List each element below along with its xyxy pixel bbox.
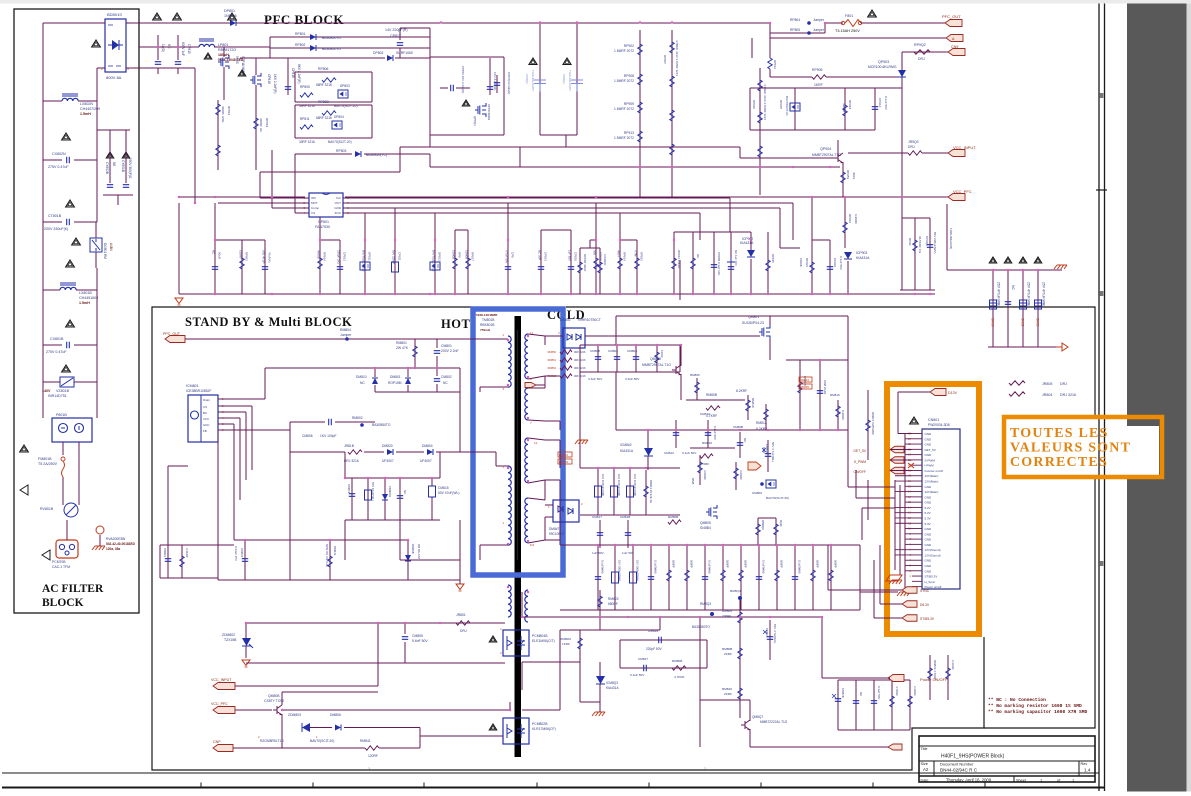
svg-text:120a, 35a: 120a, 35a xyxy=(106,547,120,551)
choke LX802N xyxy=(43,100,62,102)
sheet zone mark A xyxy=(1100,561,1104,566)
svg-text:11: 11 xyxy=(530,331,533,335)
svg-text:OUT: OUT xyxy=(335,201,342,205)
red marked parts top xyxy=(558,452,572,457)
svg-text:CM83: CM83 xyxy=(1036,318,1040,327)
svg-text:RP902: RP902 xyxy=(624,44,634,48)
svg-text:0.1uF 50V: 0.1uF 50V xyxy=(884,96,888,110)
divider chain x672 xyxy=(671,30,673,198)
svg-text:CM810: CM810 xyxy=(700,412,710,416)
svg-text:51M0B: 51M0B xyxy=(452,250,456,259)
svg-text:200RF: 200RF xyxy=(722,614,731,618)
RM806b resistor xyxy=(672,666,686,670)
rm821 resistors 3.6KRF xyxy=(699,455,701,485)
svg-text:GND: GND xyxy=(925,543,933,547)
svg-text:GNC: GNC xyxy=(203,423,209,427)
wire y392 xyxy=(375,391,460,393)
choke LX801B xyxy=(42,222,44,290)
QM807 transistor xyxy=(741,720,750,730)
svg-text:CM81B: CM81B xyxy=(620,515,630,519)
CN801 main rail wires xyxy=(894,480,896,570)
svg-text:CM80: CM80 xyxy=(991,318,995,327)
svg-text:** No marking capacitor 1608 X: ** No marking capacitor 1608 X7R SMD xyxy=(988,709,1087,715)
svg-text:ICM801: ICM801 xyxy=(186,384,199,388)
svg-text:RM860: RM860 xyxy=(548,350,557,354)
svg-text:NC: NC xyxy=(696,254,700,258)
cold comb component x741 xyxy=(740,545,742,610)
wire standby verticals xyxy=(377,623,379,686)
svg-text:NPO.WL 1W C4B: NPO.WL 1W C4B xyxy=(325,544,329,567)
svg-text:QM8Q7: QM8Q7 xyxy=(752,715,763,719)
svg-text:1.5MRF 2072: 1.5MRF 2072 xyxy=(614,49,634,53)
svg-text:BAV70(SCIT-20): BAV70(SCIT-20) xyxy=(766,496,789,500)
CN801 pin bus wires xyxy=(904,434,906,589)
component CP810 on ground comb xyxy=(570,240,572,294)
svg-text:ST/B5.3V: ST/B5.3V xyxy=(920,617,935,621)
svg-text:CM815: CM815 xyxy=(438,486,449,490)
svg-text:RP817: RP817 xyxy=(471,252,475,261)
wire sync from schematic xyxy=(828,589,895,591)
junction dots cold y430 xyxy=(647,429,649,431)
svg-text:0.1uF 50V: 0.1uF 50V xyxy=(839,256,843,270)
RM841 resistor xyxy=(298,747,365,749)
CP906 capacitor xyxy=(929,218,931,290)
svg-text:INR14D751: INR14D751 xyxy=(48,394,67,398)
svg-text:CM8#B: CM8#B xyxy=(841,688,845,698)
svg-text:BA30B50TO: BA30B50TO xyxy=(322,47,341,51)
svg-text:CM808: CM808 xyxy=(590,349,600,353)
bridge rectifier BD801S xyxy=(105,19,126,72)
svg-text:QP8Q4: QP8Q4 xyxy=(473,116,477,126)
svg-text:DM801: DM801 xyxy=(390,375,401,379)
svg-text:8.2KRF: 8.2KRF xyxy=(841,410,845,420)
svg-text:46K0B: 46K0B xyxy=(317,250,321,259)
svg-text:CN9: CN9 xyxy=(951,45,958,49)
svg-text:DM80B: DM80B xyxy=(411,544,415,554)
RP921 resistor branch xyxy=(811,197,813,294)
RP905 resistor xyxy=(770,76,812,78)
cold bottom comb bottom wire xyxy=(560,609,860,611)
svg-text:1.5MRF 2072: 1.5MRF 2072 xyxy=(614,136,634,140)
lower cluster RM8 resistor xyxy=(329,540,331,580)
Y-caps CY802B CY801B xyxy=(97,129,130,131)
svg-text:0.1uF 50V: 0.1uF 50V xyxy=(630,673,645,677)
svg-text:5.3V: 5.3V xyxy=(925,522,931,526)
svg-text:ZOC: ZOC xyxy=(335,211,342,215)
transistor QM80B xyxy=(235,709,272,711)
svg-text:RM802: RM802 xyxy=(352,416,363,420)
arrow marker left xyxy=(20,485,28,495)
svg-text:ELE1M06(CIT): ELE1M06(CIT) xyxy=(532,639,555,643)
svg-text:4.7RNF: 4.7RNF xyxy=(895,686,899,696)
lower cluster diode DM809 xyxy=(407,540,409,580)
svg-text:CY802B: CY802B xyxy=(105,162,109,174)
svg-text:200V 330uF(K): 200V 330uF(K) xyxy=(44,227,68,231)
svg-text:NC: NC xyxy=(1011,285,1015,290)
svg-text:ST/B5.3V: ST/B5.3V xyxy=(925,575,938,579)
svg-text:0.1uF 50V: 0.1uF 50V xyxy=(877,686,881,699)
component RP852 on ground comb xyxy=(241,240,243,294)
svg-text:GND: GND xyxy=(925,532,933,536)
wires cold mid xyxy=(580,467,680,469)
cap CP815b in box xyxy=(451,85,454,91)
sense diode rows RP801 RP802 xyxy=(269,37,271,58)
svg-text:RP907: RP907 xyxy=(663,55,667,64)
svg-text:S_PWM: S_PWM xyxy=(854,460,866,464)
PFC ground bus xyxy=(179,293,935,295)
JR801 resistor xyxy=(440,622,456,624)
svg-text:RM841: RM841 xyxy=(333,546,337,556)
long wire y700 row xyxy=(699,700,701,747)
wires bottom right xyxy=(750,746,770,748)
svg-text:RP801: RP801 xyxy=(295,32,305,36)
svg-text:RM810: RM810 xyxy=(751,398,755,408)
svg-text:JR801: JR801 xyxy=(456,613,466,617)
wire bus cold y430 xyxy=(616,429,848,431)
svg-text:CP818: CP818 xyxy=(267,74,271,84)
warning triangles input caps xyxy=(153,13,162,20)
svg-text:0.33uF 25V: 0.33uF 25V xyxy=(234,546,238,561)
CM808b NC cap xyxy=(739,432,741,458)
svg-text:Sheet: Sheet xyxy=(1016,779,1027,783)
TOUTES LES VALEURS box fill xyxy=(1007,419,1159,475)
wire x290 vertical xyxy=(289,430,291,580)
DM808 DM804 row y452 xyxy=(290,451,345,453)
cluster feed wire xyxy=(946,204,948,270)
svg-text:PFC BLOCK: PFC BLOCK xyxy=(264,12,344,27)
fuse F801 xyxy=(825,22,843,24)
TOUTES gray strip artifact xyxy=(1127,419,1159,426)
warning triangle inlet xyxy=(20,445,29,452)
optocoupler PCM802B xyxy=(503,718,529,744)
svg-text:NC: NC xyxy=(859,692,863,696)
cold comb component x777 xyxy=(776,545,778,610)
svg-text:RP816: RP816 xyxy=(323,252,327,261)
svg-text:NC: NC xyxy=(403,490,407,494)
component DP811 on ground comb xyxy=(364,240,366,294)
svg-text:275V 0.47uF: 275V 0.47uF xyxy=(48,165,69,169)
svg-text:KIA431A: KIA431A xyxy=(620,449,634,453)
CN801 label and triangle xyxy=(910,417,919,424)
transformer primary winding 2 xyxy=(508,466,511,545)
RM819 resistor right xyxy=(837,400,839,430)
svg-text:220pF 50V: 220pF 50V xyxy=(646,647,662,651)
svg-text:3.6KRF: 3.6KRF xyxy=(739,470,743,480)
svg-text:560RF: 560RF xyxy=(816,560,820,568)
ICP902 KIA431A xyxy=(747,250,755,257)
PFC inductor LP801 xyxy=(199,44,215,47)
svg-text:51KRF: 51KRF xyxy=(239,250,243,259)
svg-text:Drain: Drain xyxy=(203,398,210,402)
wire dn802 xyxy=(545,335,563,337)
wires filter section 2 xyxy=(42,160,44,222)
svg-text:RP811: RP811 xyxy=(300,117,310,121)
svg-text:JR805: JR805 xyxy=(1042,382,1052,386)
legend resistor JR805 xyxy=(1009,381,1025,385)
CM826b cap star xyxy=(769,620,771,660)
svg-text:5948-13048MB: 5948-13048MB xyxy=(476,313,498,317)
component RP816 on ground comb xyxy=(319,240,321,294)
wire secondary outputs right xyxy=(650,344,680,346)
svg-text:RM812: RM812 xyxy=(756,421,767,425)
wire bridge bottom xyxy=(126,67,139,69)
CP914 capacitor branch xyxy=(874,88,876,130)
svg-text:RM80B: RM80B xyxy=(672,659,682,663)
svg-text:CM827: CM827 xyxy=(638,657,648,661)
D5.3V flag xyxy=(902,601,917,608)
svg-text:RP819: RP819 xyxy=(265,118,269,128)
svg-text:ROP15M: ROP15M xyxy=(388,381,402,385)
svg-text:RM805: RM805 xyxy=(690,373,700,377)
svg-text:8.2KRF: 8.2KRF xyxy=(736,389,747,393)
svg-text:Date: Date xyxy=(921,779,929,783)
cold comb component x633 xyxy=(632,545,634,610)
svg-text:RP805: RP805 xyxy=(300,85,310,89)
right gray band xyxy=(1127,4,1187,792)
svg-text:90uO: 90uO xyxy=(218,252,222,260)
svg-text:4.7nF 50V: 4.7nF 50V xyxy=(505,250,509,263)
svg-text:BAV70(SCIT-20): BAV70(SCIT-20) xyxy=(328,140,352,144)
svg-text:MMBT2907AL T1G: MMBT2907AL T1G xyxy=(812,153,841,157)
svg-text:68RF 3216: 68RF 3216 xyxy=(316,116,332,120)
svg-text:230pF 2KV: 230pF 2KV xyxy=(337,250,341,265)
1.5M resistor divider column xyxy=(639,30,641,198)
svg-text:RP905: RP905 xyxy=(812,68,822,72)
svg-text:RP80B: RP80B xyxy=(318,100,329,104)
transformer primary winding 1 xyxy=(508,336,511,387)
PFC controller CP801 FAN7530 xyxy=(309,193,343,217)
component RP815 on ground comb xyxy=(595,240,597,294)
svg-text:CM8#1: CM8#1 xyxy=(163,548,167,557)
svg-text:36K: 36K xyxy=(593,250,597,255)
svg-text:1.5MRF 2072: 1.5MRF 2072 xyxy=(614,79,634,83)
PPC_OUT flag standby xyxy=(165,336,185,343)
RP935 resistor xyxy=(767,232,769,294)
svg-text:542-42-40-00183ED: 542-42-40-00183ED xyxy=(106,542,136,546)
svg-text:BLOCK: BLOCK xyxy=(42,597,84,609)
svg-text:DM806: DM806 xyxy=(330,713,341,717)
svg-text:RM80B: RM80B xyxy=(668,515,678,519)
svg-text:UF4007: UF4007 xyxy=(382,459,394,463)
svg-text:F801: F801 xyxy=(845,14,853,18)
svg-text:KIA431A: KIA431A xyxy=(606,686,619,690)
ICP903 KIA431A xyxy=(844,252,852,259)
svg-text:4.7M: 4.7M xyxy=(634,250,638,257)
svg-text:RP913: RP913 xyxy=(624,131,634,135)
svg-text:50V 10uF(WL): 50V 10uF(WL) xyxy=(371,482,375,501)
warning triangle CT801B xyxy=(66,200,75,207)
svg-text:10V 1000uF(WM): 10V 1000uF(WM) xyxy=(601,474,605,496)
CM805 capacitor xyxy=(404,623,406,634)
svg-text:TZX15B: TZX15B xyxy=(224,638,237,642)
svg-text:MOT: MOT xyxy=(311,201,318,205)
svg-text:DM8#7: DM8#7 xyxy=(549,527,560,531)
red ground CN801 xyxy=(889,580,902,584)
varistor VZ801B xyxy=(42,345,44,382)
cold comb component x705 xyxy=(704,545,706,610)
S-PWM flag xyxy=(890,457,904,464)
CM806 capacitor xyxy=(290,421,325,423)
svg-text:MMBT2907AL T1G: MMBT2907AL T1G xyxy=(642,363,671,367)
CM824 loop xyxy=(620,639,707,641)
svg-text:RM809: RM809 xyxy=(722,609,732,613)
bulk cap branch 2 xyxy=(576,22,578,135)
svg-text:H40F1_9HS(POWER Block): H40F1_9HS(POWER Block) xyxy=(941,754,1005,760)
svg-text:4.7MRF 3213 4.7MRF 3213: 4.7MRF 3213 4.7MRF 3213 xyxy=(675,40,679,76)
svg-text:QM802: QM802 xyxy=(650,357,661,361)
svg-text:RM804: RM804 xyxy=(340,328,351,332)
svg-text:ICM8Q3: ICM8Q3 xyxy=(606,681,618,685)
svg-text:200V 2.2nF: 200V 2.2nF xyxy=(441,349,459,353)
svg-text:NC 1uF 10V: NC 1uF 10V xyxy=(734,250,738,266)
svg-text:5.3V: 5.3V xyxy=(925,516,931,520)
wires lower standby xyxy=(234,539,408,541)
transformer core lines xyxy=(517,330,519,560)
AC filter block border xyxy=(14,9,139,613)
RM8 1KRF resistor xyxy=(656,345,658,372)
svg-text:25V 470uF(WB): 25V 470uF(WB) xyxy=(1027,282,1031,306)
svg-text:CP816: CP816 xyxy=(291,68,295,78)
standby left cap column 2 xyxy=(181,545,183,578)
wire qm80b collector right xyxy=(282,709,510,711)
cold comb component x813 xyxy=(812,545,814,610)
svg-text:DET_5V: DET_5V xyxy=(925,448,936,452)
svg-text:Vcc: Vcc xyxy=(336,196,342,200)
jumper rows RP804 RP805 xyxy=(769,23,771,33)
svg-text:RM813 39.32E 3G: RM813 39.32E 3G xyxy=(649,480,653,503)
svg-text:FM801B: FM801B xyxy=(38,457,52,461)
wire x195 vertical xyxy=(194,68,196,203)
PFC top bus wire xyxy=(139,22,230,24)
svg-text:560RF: 560RF xyxy=(690,560,694,568)
cap cluster arrow out xyxy=(1056,343,1068,351)
svg-text:10KRF: 10KRF xyxy=(799,258,803,268)
wire loop zdm802 top xyxy=(246,622,505,624)
QP904 transistor xyxy=(834,153,843,163)
red ground icm803 xyxy=(592,712,605,716)
svg-text:PCM70B: PCM70B xyxy=(52,560,66,564)
PFC mid horizontal y240 xyxy=(812,239,830,241)
bottom ruler ticks xyxy=(201,783,985,788)
svg-text:5948-13048 SED: 5948-13048 SED xyxy=(218,58,244,62)
svg-text:CX801B: CX801B xyxy=(50,337,64,341)
svg-text:Size: Size xyxy=(921,762,928,766)
svg-text:GND: GND xyxy=(925,485,933,489)
svg-text:CP916: CP916 xyxy=(833,258,837,268)
sheet zone divider tick xyxy=(1096,189,1107,191)
svg-text:Title: Title xyxy=(921,747,928,751)
svg-text:DET_5V: DET_5V xyxy=(854,449,867,453)
wire bridge top left loop xyxy=(43,22,105,24)
standby left vertical wire xyxy=(167,466,169,545)
svg-text:RM841: RM841 xyxy=(360,739,371,743)
svg-text:GND: GND xyxy=(925,501,933,505)
svg-text:BAV70SOT-23: BAV70SOT-23 xyxy=(785,96,789,116)
svg-text:50V 4.7uF(ML): 50V 4.7uF(ML) xyxy=(771,442,775,462)
capacitor CT801B xyxy=(43,221,62,223)
svg-text:I-PWM: I-PWM xyxy=(925,464,935,468)
svg-text:CORRECTES: CORRECTES xyxy=(1010,455,1108,470)
resistor chain left cold xyxy=(560,350,572,354)
svg-text:Power ON/OFF: Power ON/OFF xyxy=(920,677,948,682)
svg-text:CM8 2G4B: CM8 2G4B xyxy=(823,380,827,394)
Power ONOFF flag xyxy=(888,675,904,682)
warning triangle near bridge xyxy=(92,40,101,47)
svg-text:0.1uF(WM): 0.1uF(WM) xyxy=(762,560,766,574)
svg-text:3.3nF 50V: 3.3nF 50V xyxy=(625,377,640,381)
svg-text:ZDM801: ZDM801 xyxy=(388,486,392,497)
svg-text:T5 2A/250V: T5 2A/250V xyxy=(38,462,58,466)
svg-text:13V(Main): 13V(Main) xyxy=(925,490,939,494)
svg-text:0.1uF 50V: 0.1uF 50V xyxy=(682,451,697,455)
svg-text:KIA431A: KIA431A xyxy=(856,256,870,260)
vertical x430 xyxy=(429,37,431,58)
svg-text:RM80B: RM80B xyxy=(722,647,732,651)
title block title row divider xyxy=(919,745,1095,747)
PFC ic right vertical drops xyxy=(699,213,701,240)
svg-text:1.5MRF 2072: 1.5MRF 2072 xyxy=(614,107,634,111)
caps row 3.3nF xyxy=(597,345,599,372)
sheet frame inner right line xyxy=(1098,4,1100,792)
svg-text:BN44-02/94C R C: BN44-02/94C R C xyxy=(940,768,978,773)
svg-text:CP9Q6: CP9Q6 xyxy=(925,236,929,246)
svg-text:5.2V: 5.2V xyxy=(925,511,931,515)
svg-text:GND: GND xyxy=(925,453,933,457)
svg-text:13V(Sound): 13V(Sound) xyxy=(925,548,941,552)
RM810 resistor xyxy=(747,395,749,420)
CM8 cap right tall xyxy=(679,260,681,300)
svg-text:GND: GND xyxy=(925,538,933,542)
D13V flag xyxy=(930,389,946,396)
svg-text:VZ801B: VZ801B xyxy=(56,389,70,393)
svg-text:CP8: CP8 xyxy=(511,252,515,258)
svg-text:PCM802B: PCM802B xyxy=(532,722,548,726)
sense chain verticals x272 xyxy=(271,150,273,203)
svg-text:CNP: CNP xyxy=(213,740,221,744)
component 47uF(A) on ground comb xyxy=(264,240,266,294)
RP912 resistor xyxy=(751,38,753,58)
svg-text:560RF: 560RF xyxy=(780,560,784,568)
ICP902 cluster xyxy=(674,231,751,233)
bottom ruler upper line xyxy=(2,772,1099,774)
svg-text:CM82: CM82 xyxy=(1021,318,1025,327)
wire y520 to ground drop xyxy=(399,520,401,560)
svg-text:VCC_PFC: VCC_PFC xyxy=(953,189,972,194)
wires cn801 left feeds xyxy=(879,545,881,604)
svg-text:CP8 8(V2.2uF(R): CP8 8(V2.2uF(R) xyxy=(507,72,511,94)
blue highlight rectangle xyxy=(473,309,563,575)
svg-text:51M0B: 51M0B xyxy=(465,250,469,259)
svg-text:CP90B 0.1uF 10V: CP90B 0.1uF 10V xyxy=(717,252,721,275)
bus y88 right xyxy=(750,87,902,89)
svg-text:A4B4: A4B4 xyxy=(109,243,113,251)
capacitor CP816 xyxy=(287,58,289,95)
svg-text:CM801: CM801 xyxy=(441,344,452,348)
cold comb component x615 xyxy=(614,545,616,610)
svg-text:UF4007: UF4007 xyxy=(420,459,432,463)
caps cluster y480-520 xyxy=(345,477,440,479)
cold comb component x795 xyxy=(794,545,796,610)
svg-text:DP812: DP812 xyxy=(438,252,442,261)
svg-text:10V 1000uF(WM): 10V 1000uF(WM) xyxy=(633,474,637,496)
wire ppcout to transformer xyxy=(185,338,473,340)
cold comb component x669 xyxy=(668,545,670,610)
QP802 mosfet xyxy=(475,103,486,117)
RM822 resistor xyxy=(599,590,601,630)
svg-text:RM8#7 2W510RF: RM8#7 2W510RF xyxy=(871,412,875,435)
wires lower center xyxy=(560,629,660,631)
svg-text:2KRF: 2KRF xyxy=(724,692,732,696)
